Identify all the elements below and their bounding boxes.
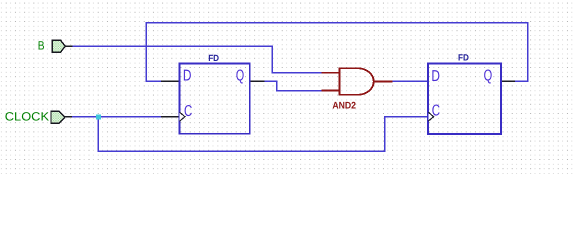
pin stub black: FD1 D: [162, 80, 180, 82]
svg-text:AND2: AND2: [332, 100, 356, 111]
svg-text:C: C: [432, 103, 440, 120]
svg-text:B: B: [38, 39, 45, 53]
flip-flop U2 clock edge triangle: [428, 112, 433, 121]
input port CLOCK marker: [51, 111, 65, 123]
svg-text:D: D: [431, 68, 440, 85]
svg-text:CLOCK: CLOCK: [5, 109, 49, 123]
and gate U3 input stub 1: [321, 72, 339, 74]
flip-flop U1 clock edge triangle: [180, 112, 185, 121]
flip-flop U2 (FD) box: [428, 63, 501, 134]
wire: CLOCK net horizontal: [65, 116, 163, 118]
pin stub black: FD1 Q: [250, 80, 264, 82]
wire: FD1.Q to AND2 lower input: [264, 81, 322, 90]
svg-text:Q: Q: [484, 68, 493, 85]
and gate U3 input stub 2: [321, 90, 339, 92]
wire: AND2 output to FD2.D: [392, 80, 428, 82]
and gate U3 body: [339, 68, 373, 95]
junction dot on CLOCK net: [96, 115, 101, 120]
wire: feedback net FD2.Q to FD1.D (top route): [146, 23, 528, 81]
svg-text:FD: FD: [458, 53, 469, 63]
wire: net B horizontal from port to corner: [65, 46, 322, 73]
svg-text:FD: FD: [208, 53, 219, 63]
pin stub black: CLOCK port tip: [65, 116, 72, 118]
flip-flop U1 (FD) box: [179, 63, 249, 133]
pin stub black: B port tip: [65, 45, 72, 47]
and gate U3 output stub: [374, 80, 393, 82]
pin stub black: FD1 C: [162, 116, 180, 118]
svg-text:Q: Q: [236, 68, 244, 85]
svg-text:C: C: [184, 103, 192, 120]
pin stub black: FD2 Q: [501, 80, 514, 82]
svg-text:D: D: [183, 68, 192, 85]
input port B marker: [52, 40, 65, 52]
wire: CLOCK branch to FD2.C (bottom route): [98, 117, 428, 151]
